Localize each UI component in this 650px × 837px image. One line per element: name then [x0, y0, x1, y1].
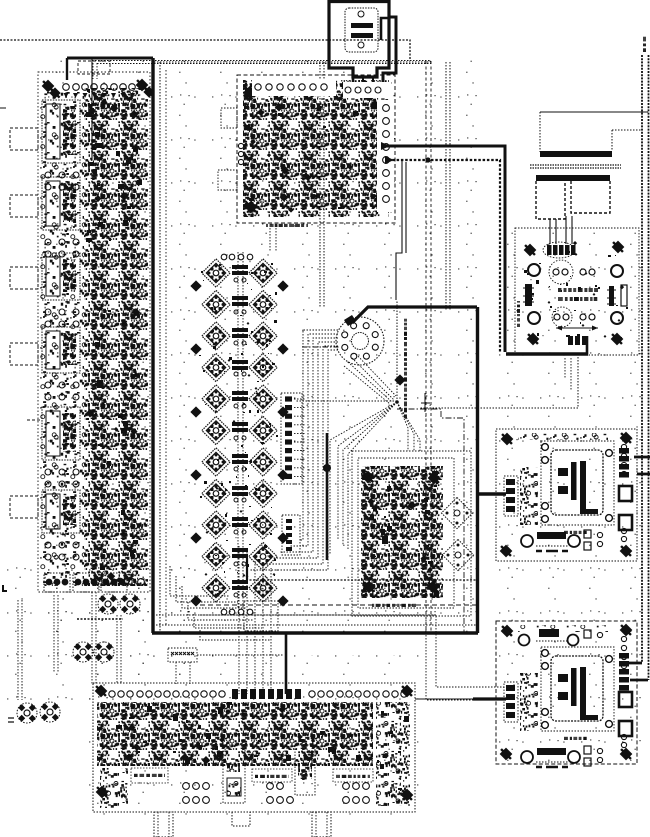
- mounting diamond left: [190, 595, 201, 606]
- amp board mount BL: [94, 784, 110, 800]
- wire N1 diagonals right: [397, 402, 420, 451]
- softstart coil right: [607, 285, 627, 306]
- wire supply B: [388, 160, 500, 352]
- wire J1 right step outer: [383, 17, 396, 86]
- wire main to psu1 thick: [478, 492, 506, 495]
- amp board mount TR: [399, 683, 415, 699]
- psu1 cap C2: [619, 515, 632, 530]
- wire dotted drop 4: [117, 615, 121, 684]
- scan noise field bottom-left: [0, 560, 200, 700]
- psu2 mount TR: [618, 622, 634, 638]
- psu1 transformer core bar 1: [571, 462, 577, 500]
- bus wire 1: [641, 55, 643, 663]
- relay K6: [42, 490, 80, 533]
- softstart board outline: [515, 228, 639, 355]
- wire J1 leg 2: [362, 77, 364, 86]
- inner border dotted bottom 2: [156, 614, 436, 616]
- wire supply A: [384, 146, 505, 352]
- amp board mount BR: [399, 787, 415, 803]
- mounting diamond left: [190, 343, 201, 354]
- wire dotted drop 2: [54, 595, 58, 672]
- softstart pad pair 3: [554, 314, 569, 320]
- header X2 pin 7: [285, 448, 306, 453]
- wire N1 left: [295, 400, 397, 402]
- connector J1 pad bottom: [358, 42, 364, 48]
- relay K5: [42, 407, 80, 460]
- connector board J1 outline: [329, 0, 389, 77]
- softstart cap ring 1: [549, 260, 573, 284]
- psu2 mount TL: [499, 623, 515, 639]
- psu2 transformer caption: [564, 737, 587, 740]
- softstart entry pad ring: [543, 242, 575, 258]
- psu1 transformer core foot: [580, 509, 598, 514]
- psu2 top misc parts: [518, 625, 608, 632]
- header X2 pin 10: [285, 474, 306, 479]
- softstart resistor bar 2: [558, 297, 597, 301]
- mounting diamond right: [277, 406, 288, 417]
- input board strip outline: [38, 72, 150, 592]
- softstart pad pair 2: [580, 269, 595, 275]
- wire X1 link: [197, 654, 283, 656]
- power transistor Q12: [249, 416, 277, 444]
- amp board mid bottom cluster 2: [295, 745, 315, 795]
- amp board pad group 1: [183, 783, 210, 804]
- bus label: [643, 37, 646, 52]
- protection board mount BL: [361, 579, 377, 595]
- header X3 outline: [282, 515, 300, 555]
- jumper block X1: [168, 648, 197, 662]
- output pad group P3: [101, 573, 127, 592]
- junction box under column: [244, 601, 278, 631]
- round connector C1 pins: [342, 323, 379, 360]
- emitter resistor R7: [232, 454, 248, 471]
- driver board mount mark BL: [243, 199, 259, 215]
- driver board outline: [237, 75, 395, 223]
- driver board right pad column: [377, 100, 394, 212]
- softstart relay pad L2: [528, 312, 540, 324]
- softstart board bottom thick bar: [506, 352, 588, 356]
- relay pad diamond 2: [442, 539, 473, 570]
- power transistor Q6: [249, 322, 277, 350]
- wire dotted drop 3: [92, 592, 96, 684]
- psu2 fuse cluster: [520, 673, 538, 731]
- solder blob harness: [323, 464, 331, 472]
- wire heatsink feed top: [540, 111, 648, 113]
- psu1 bottom bar: [536, 532, 568, 551]
- driver board left tab 2: [218, 170, 237, 190]
- heatsink plate outline: [540, 112, 642, 152]
- mounting diamond right: [277, 469, 288, 480]
- main board right edge thick (supply trace): [476, 307, 479, 633]
- psu2 bottom pad L: [521, 751, 533, 763]
- amp board component field: [97, 702, 373, 766]
- psu2 cap C1: [619, 692, 632, 707]
- psu1 board outline: [496, 429, 637, 561]
- wire top bus zigzag: [0, 40, 410, 61]
- amp board label 3: [333, 769, 373, 782]
- psu1 transformer caption: [564, 531, 587, 534]
- power transistor Q19: [202, 542, 230, 570]
- relay K6 pads: [45, 542, 79, 560]
- round connector C1 outline: [336, 317, 384, 365]
- psu2 board outline: [496, 621, 637, 764]
- N1 tick mark: [421, 393, 430, 412]
- mounting diamond left: [190, 406, 201, 417]
- protection board inner outline: [358, 458, 454, 608]
- terminal tab T2: [10, 195, 38, 217]
- header X2 pin 4: [285, 422, 306, 427]
- psu1 bottom pad L: [521, 535, 533, 547]
- inner border dotted bottom 3: [156, 624, 477, 626]
- protection board outer outline: [352, 451, 471, 616]
- driver board left pad column: [238, 143, 243, 164]
- power transistor Q7: [202, 353, 230, 381]
- relay K3 pads: [45, 309, 79, 327]
- softstart scatter: [530, 279, 531, 280]
- psu1 right pads: [621, 444, 626, 476]
- wire vertical dotted pair C: [319, 62, 321, 308]
- wire softstart bottom entry: [420, 354, 578, 408]
- amp board label 2: [252, 769, 292, 782]
- power transistor Q10: [249, 385, 277, 413]
- scan noise field right: [496, 227, 641, 767]
- relay K4 pads: [45, 382, 79, 400]
- power transistor Q8: [249, 353, 277, 381]
- bracket top bar: [536, 175, 610, 181]
- emitter resistor R3: [232, 328, 248, 345]
- zigzag rail above bottom edge: [246, 579, 478, 581]
- psu2 mount BL: [498, 746, 514, 762]
- psu2 transformer winding tab 2: [558, 692, 568, 700]
- left edge mark 2: [8, 718, 14, 722]
- mounting tab 1: [154, 812, 173, 837]
- mounting diamond left: [190, 280, 201, 291]
- column solder speckle: [215, 410, 218, 413]
- wire C1 left dashdot: [302, 346, 340, 348]
- softstart pad pair 1: [553, 269, 568, 275]
- power transistor Q5: [202, 322, 230, 350]
- psu2 bottom rects: [584, 746, 603, 766]
- wire vertical dotted pair B: [445, 62, 447, 310]
- power transistor Q2: [249, 259, 277, 287]
- softstart mount TL: [522, 242, 538, 258]
- psu2 transformer outline: [541, 647, 614, 731]
- wire B branch down: [396, 160, 402, 300]
- relay K2 pads: [45, 239, 79, 257]
- psu1 transformer core bar 2: [580, 461, 586, 514]
- wire solid drop into strip: [91, 58, 93, 160]
- psu1 transformer outline: [541, 441, 614, 525]
- mounting diamond right: [277, 343, 288, 354]
- amp board left bottom cluster: [100, 768, 128, 808]
- psu1 cap C1: [619, 486, 632, 501]
- amp board pad group 2: [267, 783, 294, 804]
- output pad group P1: [44, 573, 70, 592]
- transistor column bottom pads: [221, 609, 253, 615]
- psu1 input connector: [504, 476, 518, 516]
- emitter resistor R9: [232, 517, 248, 534]
- softstart arrow link: [556, 326, 598, 331]
- connector J1 contact bar 2: [351, 33, 373, 38]
- driver board component field: [243, 80, 389, 217]
- wire driver to column 2: [275, 228, 277, 252]
- pin arrows into main board: [350, 84, 356, 90]
- wire N1 right rail: [397, 409, 464, 633]
- power transistor Q13: [202, 448, 230, 476]
- power transistor Q3: [202, 290, 230, 318]
- psu2 right connector pads: [619, 653, 629, 691]
- wires C1 to node diagonals: [344, 354, 396, 404]
- pad diamond near node: [394, 374, 405, 385]
- emitter resistor R5: [232, 391, 248, 408]
- wire psu1 to bus 2: [637, 473, 650, 476]
- wire thick harness drop: [286, 433, 327, 694]
- softstart pad pair 4: [580, 314, 595, 320]
- output pad group P2: [73, 573, 99, 592]
- strip top mount mark right: [134, 77, 150, 93]
- main board top edge dotted: [154, 61, 431, 63]
- wire J1 leg 1: [352, 68, 355, 86]
- wire psu1 to bus 1: [634, 456, 650, 459]
- power transistor Q20: [249, 542, 277, 570]
- power transistor Q4: [249, 290, 277, 318]
- wire bus2 into psu2: [630, 679, 648, 682]
- softstart mount TR: [610, 239, 626, 255]
- psu2 cap C2: [619, 721, 632, 736]
- relay K2: [42, 177, 80, 230]
- screw terminal pair C: [17, 703, 37, 723]
- psu1 mount TR: [618, 430, 634, 446]
- heatsink plate bottom bar: [540, 151, 612, 157]
- driver board left tab 1: [221, 108, 237, 128]
- wire supply B arrow: [385, 156, 394, 164]
- strip top mount mark left: [40, 78, 56, 94]
- junction dot at crossing: [425, 157, 430, 162]
- mounting diamond right: [277, 280, 288, 291]
- relay K1 pads: [45, 172, 79, 190]
- softstart resistor bar 1: [558, 288, 598, 292]
- protection board mount TR: [426, 470, 442, 486]
- strip top pad row: [63, 84, 136, 91]
- scan noise field center: [35, 58, 480, 636]
- relay pad diamond 1: [441, 497, 472, 528]
- psu2 transformer core foot: [580, 715, 598, 720]
- wire feed psu2 thick: [473, 697, 506, 700]
- wire J1 right step inner: [381, 18, 389, 40]
- mounting diamond right: [277, 595, 288, 606]
- mounting diamond left: [190, 469, 201, 480]
- wavy link A: [77, 618, 123, 620]
- bracket body: [536, 181, 610, 219]
- psu1 bottom rects: [584, 530, 603, 550]
- psu1 fuse cluster: [520, 467, 538, 525]
- psu2 right pads: [621, 636, 626, 668]
- psu2 mount BR: [618, 746, 634, 762]
- softstart relay pad R2: [611, 312, 623, 324]
- header X2 pin 3: [285, 414, 306, 419]
- strip top dashed box: [78, 61, 110, 74]
- mounting tab 3: [312, 812, 331, 837]
- wire feed psu2 dotted L: [200, 615, 504, 687]
- connector C1 solder blob: [344, 315, 356, 326]
- main board left edge thick: [151, 58, 154, 633]
- psu2 transformer core bar 2: [580, 667, 586, 720]
- relay K3: [42, 253, 80, 300]
- softstart mount BL: [525, 331, 541, 347]
- relay K1: [42, 100, 80, 163]
- terminal tab T4: [10, 343, 38, 365]
- wire N1 up: [396, 300, 398, 402]
- softstart relay pad L1: [528, 264, 540, 276]
- driver board mount mark TR: [376, 100, 392, 116]
- emitter resistor R4: [232, 360, 248, 376]
- psu2 input connector: [504, 682, 518, 722]
- strip bottom extra pads: [129, 579, 145, 586]
- driver board mount mark TL: [242, 84, 258, 100]
- driver board mount mark BR: [372, 192, 388, 208]
- wire top dotted rail: [92, 61, 431, 64]
- header X2 pin 1: [285, 396, 306, 401]
- emitter resistor R2: [232, 296, 248, 314]
- psu2 transformer pads: [542, 650, 613, 729]
- softstart bottom pads: [568, 336, 587, 345]
- left stub wire: [27, 419, 42, 421]
- wire thick C1 to right edge: [352, 307, 477, 323]
- power transistor Q9: [202, 385, 230, 413]
- softstart cap ring 2: [552, 307, 572, 327]
- amp board mount TL: [93, 683, 109, 699]
- amp board outline: [93, 683, 415, 812]
- wire dotted drop 1: [18, 600, 22, 700]
- input strip dense component field: [84, 88, 148, 586]
- psu1 mount BL: [498, 543, 514, 559]
- transistor column spine: [238, 252, 243, 608]
- connector J1 inner housing: [345, 8, 378, 52]
- screw terminal pair A: [98, 594, 118, 614]
- psu2 top rectifier bar: [519, 629, 603, 646]
- round connector C1 center: [352, 333, 369, 350]
- heatsink step wire: [612, 130, 642, 151]
- inner border dashed bottom 1: [200, 604, 477, 606]
- psu1 right connector pads: [619, 448, 629, 478]
- main board bottom edge thick: [152, 631, 478, 635]
- psu2 bottom bar: [536, 748, 568, 767]
- header X2 pin 8: [285, 457, 306, 462]
- power transistor Q15: [202, 479, 230, 507]
- psu1 bottom pad R: [568, 535, 580, 547]
- header X2 pin 5: [285, 431, 306, 436]
- wire vertical dashed pair A: [425, 61, 427, 633]
- amp board mid bottom cluster 1: [223, 745, 245, 803]
- bus wire 2: [648, 55, 650, 680]
- psu2 bottom pad R: [568, 751, 580, 763]
- power transistor Q22: [249, 574, 277, 602]
- emitter resistor R11: [232, 580, 248, 597]
- wire X1 drops: [176, 662, 190, 684]
- harness drops to amp board: [239, 546, 271, 694]
- psu1 transformer winding tab 1: [558, 468, 568, 476]
- harness fan from C1: [250, 330, 338, 570]
- mounting diamond left: [190, 532, 201, 543]
- emitter resistor R10: [232, 548, 248, 566]
- psu1 right lower pads: [621, 528, 626, 541]
- protection board mount BR: [425, 579, 441, 595]
- wires bracket to ps board: [550, 216, 572, 244]
- wire thick feed at board top: [67, 57, 153, 60]
- wire bus1 into psu2: [628, 662, 642, 665]
- power transistor Q16: [249, 479, 277, 507]
- amp board label 1: [131, 768, 168, 783]
- wire N1 diagonals left: [330, 402, 397, 555]
- psu1 transformer frame: [551, 450, 603, 515]
- psu2 right lower pads: [621, 734, 626, 747]
- connector J1 contact bar 1: [351, 23, 373, 28]
- screw terminal pair B: [73, 642, 93, 662]
- left edge mark 1: [2, 585, 7, 592]
- terminal tab T5: [10, 496, 38, 518]
- connector J1 pad top: [358, 11, 364, 17]
- star node N1: [395, 400, 399, 404]
- power transistor Q18: [249, 511, 277, 539]
- left edge mark 3: [0, 107, 6, 109]
- label rotated beside connector: [404, 319, 407, 418]
- power transistor Q17: [202, 511, 230, 539]
- mounting diamond right: [277, 532, 288, 543]
- psu2 transformer winding tab 1: [558, 674, 568, 682]
- softstart mount BR: [609, 331, 625, 347]
- protection board caption: [372, 604, 416, 607]
- wire supply A arrow: [381, 142, 390, 150]
- transistor column top pads: [221, 254, 253, 260]
- protection board mount TL: [360, 469, 376, 485]
- psu1 mount BR: [618, 543, 634, 559]
- driver board top pad row: [252, 79, 336, 96]
- terminal tab T3: [10, 267, 38, 289]
- psu1 transformer winding tab 2: [558, 486, 568, 494]
- strip top pad arrows: [64, 93, 136, 98]
- wire feed psu2 thin: [415, 698, 473, 700]
- softstart coil left: [523, 284, 534, 306]
- power transistor Q21: [202, 574, 230, 602]
- emitter resistor R6: [232, 422, 248, 440]
- inner border dotted pair left: [159, 62, 161, 633]
- mounting tab 2: [232, 812, 250, 826]
- power transistor Q11: [202, 416, 230, 444]
- psu1 top misc parts: [518, 433, 608, 440]
- wire A riser to pads: [586, 336, 589, 354]
- terminal tab T1: [10, 128, 38, 150]
- header X2 pin 2: [285, 405, 306, 410]
- wire feed pair into strip: [93, 63, 97, 79]
- psu2 transformer core bar 1: [571, 668, 577, 706]
- relay K4: [42, 327, 80, 373]
- power transistor Q1: [202, 259, 230, 287]
- amp board mid bottom cluster 3: [0, 0, 1, 1]
- softstart entry pads: [547, 245, 576, 255]
- driver board entry pads: [343, 82, 391, 98]
- input strip left component column: [40, 92, 84, 586]
- psu2 transformer frame: [551, 656, 603, 721]
- emitter resistor R8: [232, 486, 248, 502]
- wire J1 leg 3: [372, 77, 374, 86]
- header X2 outline: [281, 393, 302, 484]
- header X2 pin 6: [285, 439, 306, 444]
- separator rail double: [530, 165, 621, 168]
- softstart relay pad R1: [611, 265, 623, 277]
- psu1 transformer pads: [542, 444, 613, 523]
- scan noise field bottom: [88, 655, 420, 820]
- psu1 mount TL: [499, 431, 515, 447]
